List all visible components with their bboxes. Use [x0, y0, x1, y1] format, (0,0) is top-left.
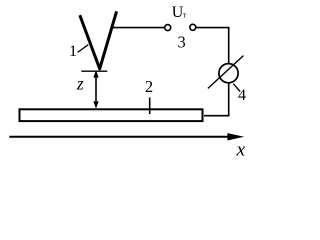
- svg-text:2: 2: [145, 77, 153, 96]
- leader tick for label 2: [149, 98, 151, 115]
- svg-text:3: 3: [177, 32, 185, 51]
- terminal circle left (3): [165, 25, 171, 31]
- z gap double arrow: [93, 70, 98, 108]
- terminal circle right (3): [190, 24, 196, 30]
- svg-text:1: 1: [69, 43, 77, 60]
- probe tip 1 (V shape): [80, 11, 117, 69]
- meter diagonal stroke: [208, 56, 244, 89]
- x axis arrow: [9, 133, 244, 140]
- meter 4 (circle): [219, 64, 238, 83]
- wire from terminal to meter: [196, 28, 229, 64]
- svg-text:т: т: [183, 10, 187, 19]
- svg-text:x: x: [236, 139, 246, 160]
- wire from tip to terminal: [112, 27, 165, 29]
- svg-text:4: 4: [238, 87, 246, 104]
- leader line for label 1: [78, 45, 89, 53]
- wire from meter to sample: [204, 83, 229, 116]
- leader line for label 4: [233, 84, 240, 92]
- svg-text:z: z: [76, 74, 84, 94]
- sample 2 (rectangle): [20, 109, 203, 121]
- tip end bar: [81, 70, 107, 72]
